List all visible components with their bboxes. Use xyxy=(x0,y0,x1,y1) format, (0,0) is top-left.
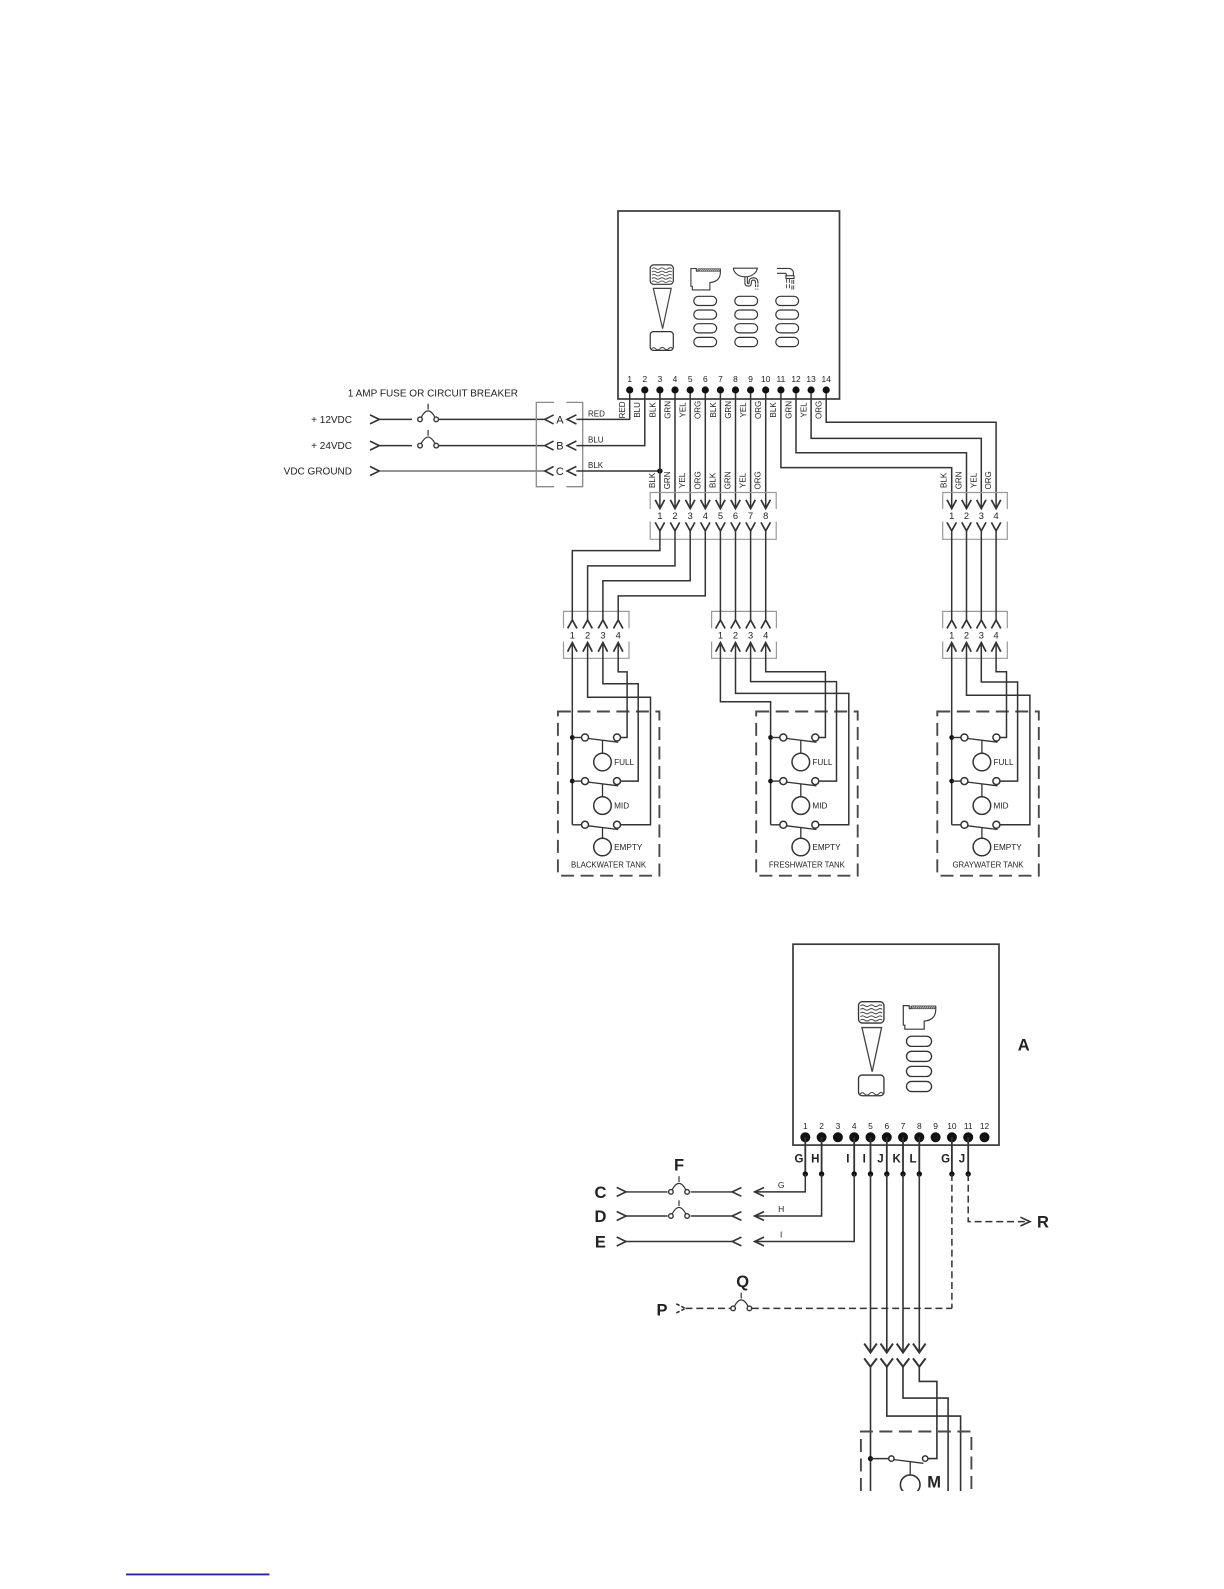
CN6 (graywater lower 4-pin) pin 4 fork/arrow xyxy=(991,620,1000,652)
svg-text:FULL: FULL xyxy=(614,758,634,767)
svg-text:D: D xyxy=(594,1208,606,1226)
net label K at bottom panel pin 7 xyxy=(893,1153,902,1165)
pin 1 of top panel (RED) xyxy=(618,374,633,418)
wire net J down to inline connector xyxy=(886,1174,888,1353)
switch F on row C xyxy=(669,1176,690,1194)
svg-text:2: 2 xyxy=(964,511,969,521)
pin 2 of top panel (BLU) xyxy=(633,374,648,418)
wire 8-pin pin 2 to blackwater connector pin 2 xyxy=(588,531,675,620)
svg-text:GRN: GRN xyxy=(955,471,964,489)
connector CN2 (8-pin inline) housing xyxy=(650,493,776,540)
wire 8-pin pin 7 to freshwater connector pin 3 xyxy=(750,531,752,620)
svg-text:C: C xyxy=(556,466,564,478)
svg-text:3: 3 xyxy=(748,631,753,641)
blackwater tank EMPTY float switch xyxy=(572,821,620,829)
node +24VDC input xyxy=(311,441,379,452)
CN4 (freshwater 4-pin) pin 3 fork/arrow xyxy=(746,620,755,652)
svg-text:13: 13 xyxy=(806,374,816,384)
net label G at bottom panel pin 10 xyxy=(941,1153,950,1165)
freshwater tank EMPTY float switch xyxy=(771,821,819,829)
svg-text:10: 10 xyxy=(761,374,771,384)
wire panel pin 9 down to 8-pin connector pin 7 (YEL) xyxy=(739,394,751,509)
svg-text:Q: Q xyxy=(736,1273,749,1291)
bottom panel pin 4 xyxy=(849,1121,859,1143)
bottom panel pin 9 xyxy=(931,1121,941,1143)
svg-text:YEL: YEL xyxy=(678,472,687,488)
CN6 (graywater lower 4-pin) pin 2 fork/arrow xyxy=(962,620,971,652)
svg-text:8: 8 xyxy=(763,511,768,521)
svg-text:4: 4 xyxy=(994,631,999,641)
svg-text:H: H xyxy=(778,1204,784,1214)
wire panel pin 8 down to 8-pin connector pin 6 (GRN) xyxy=(724,394,736,509)
svg-text:3: 3 xyxy=(600,631,605,641)
CN3 (blackwater 4-pin) pin 4 fork/arrow xyxy=(614,620,623,652)
CN4 (freshwater 4-pin) pin 1 fork/arrow xyxy=(716,620,725,652)
net label I at bottom panel pin 5 xyxy=(863,1153,866,1165)
wire 8-pin pin 1 to blackwater connector pin 1 xyxy=(572,531,660,620)
label: BLACKWATER TANK xyxy=(571,860,647,869)
junction: ground splits to 8-pin connector xyxy=(657,468,662,473)
svg-text:5: 5 xyxy=(688,374,693,384)
svg-text:RED: RED xyxy=(618,401,627,418)
wire panel pin 11 to graywater connector pin 1 (BLK) xyxy=(781,394,952,509)
wire net K down right side of tank M xyxy=(903,1367,948,1491)
graywater tank MID sensor lamp xyxy=(973,784,1008,814)
svg-text:EMPTY: EMPTY xyxy=(994,843,1023,852)
svg-text:3: 3 xyxy=(979,511,984,521)
svg-text:BLACKWATER TANK: BLACKWATER TANK xyxy=(571,860,647,869)
svg-text:ORG: ORG xyxy=(754,401,763,419)
wire net K down to inline connector xyxy=(902,1174,904,1353)
svg-text:RED: RED xyxy=(588,409,605,418)
label M xyxy=(927,1473,941,1491)
wire +24VDC to breaker xyxy=(379,445,412,447)
graywater tank FULL sensor lamp xyxy=(973,740,1014,771)
svg-text:E: E xyxy=(595,1234,606,1252)
svg-text:ORG: ORG xyxy=(984,471,993,489)
label: GRAYWATER TANK xyxy=(952,860,1024,869)
inline connector arrow/fork (K) xyxy=(897,1344,910,1367)
wire net J to output R (dashed) xyxy=(968,1174,1030,1226)
tank M dashed enclosure (cut off at page bottom) xyxy=(861,1432,972,1492)
svg-text:12: 12 xyxy=(980,1121,990,1131)
svg-text:VDC GROUND: VDC GROUND xyxy=(284,466,352,477)
wire panel pin 3 down to 8-pin connector pin 1 (BLK) xyxy=(648,394,660,509)
CN3 (blackwater 4-pin) pin 3 fork/arrow xyxy=(598,620,607,652)
blackwater tank FULL sensor lamp xyxy=(594,740,635,771)
wire blackwater tank FULL sense (pin4) xyxy=(618,643,627,738)
svg-text:1: 1 xyxy=(718,631,723,641)
svg-text:4: 4 xyxy=(763,631,768,641)
wire freshwater tank FULL sense (pin4) xyxy=(766,643,826,738)
net label J at bottom panel pin 6 xyxy=(877,1153,883,1165)
svg-text:YEL: YEL xyxy=(739,472,748,488)
svg-text:A: A xyxy=(556,414,564,426)
wire graywater tank MID sense (pin3) xyxy=(981,643,1017,782)
connector CN3 (blackwater 4-pin) housing xyxy=(564,611,630,658)
panel A: tank monitor (bottom) xyxy=(793,944,999,1145)
wire stub and junction below pin 11 xyxy=(966,1137,971,1176)
wire +12VDC to breaker xyxy=(379,418,412,420)
svg-text:I: I xyxy=(780,1230,782,1240)
connector CN5 (graywater upper 4-pin) housing xyxy=(943,493,1008,540)
wire net L down to inline connector xyxy=(918,1174,920,1353)
icon: tank level symbol xyxy=(650,265,673,351)
svg-text:GRN: GRN xyxy=(724,471,733,489)
wire graywater tank FULL sense (pin4) xyxy=(996,643,1006,738)
svg-text:YEL: YEL xyxy=(679,402,688,418)
svg-text:7: 7 xyxy=(718,374,723,384)
blackwater tank FULL float switch xyxy=(570,734,621,742)
svg-text:1: 1 xyxy=(570,631,575,641)
svg-text:10: 10 xyxy=(947,1121,957,1131)
CN5 (graywater upper 4-pin) pin 1 arrow/fork xyxy=(947,500,956,531)
graywater tank FULL float switch xyxy=(949,734,1000,742)
svg-text:P: P xyxy=(656,1301,667,1319)
svg-text:BLK: BLK xyxy=(940,472,949,488)
svg-text:L: L xyxy=(909,1153,916,1165)
svg-text:I: I xyxy=(846,1153,849,1165)
svg-text:YEL: YEL xyxy=(969,472,978,488)
svg-text:1: 1 xyxy=(949,511,954,521)
freshwater tank MID float switch xyxy=(768,778,819,786)
svg-text:14: 14 xyxy=(822,374,832,384)
svg-text:8: 8 xyxy=(733,374,738,384)
wire net I from pin 4 to switch row xyxy=(755,1174,855,1246)
net label L at bottom panel pin 8 xyxy=(909,1153,916,1165)
wire blackwater tank EMPTY sense (pin2) xyxy=(588,643,651,825)
CN2 (8-pin inline) pin 7 arrow/fork xyxy=(746,500,755,531)
net label H at bottom panel pin 2 xyxy=(811,1153,819,1165)
icon: sink (freshwater) with level bars xyxy=(733,268,758,346)
wire net G from pin 1 to switch row xyxy=(755,1174,806,1196)
svg-text:GRN: GRN xyxy=(663,401,672,419)
svg-text:ORG: ORG xyxy=(693,471,702,489)
bottom panel pin 6 xyxy=(882,1121,892,1143)
pin 7 of top panel (BLK) xyxy=(709,374,724,418)
svg-text:GRAYWATER TANK: GRAYWATER TANK xyxy=(952,860,1024,869)
pin 4 of top panel (GRN) xyxy=(663,374,678,419)
svg-text:BLK: BLK xyxy=(709,402,718,418)
wire blackwater tank MID sense (pin3) xyxy=(603,643,638,782)
blackwater tank EMPTY sensor lamp xyxy=(594,828,643,856)
pin 11 of top panel (BLK) xyxy=(769,374,785,418)
wire stub and junction below pin 7 xyxy=(900,1137,905,1176)
pin 12 of top panel (GRN) xyxy=(784,374,801,419)
svg-text:MID: MID xyxy=(994,802,1009,811)
svg-text:EMPTY: EMPTY xyxy=(812,843,841,852)
label R xyxy=(1037,1214,1049,1232)
svg-text:12: 12 xyxy=(791,374,801,384)
freshwater tank MID sensor lamp xyxy=(792,784,827,814)
CN3 (blackwater 4-pin) pin 2 fork/arrow xyxy=(583,620,592,652)
svg-text:F: F xyxy=(674,1156,684,1174)
svg-text:EMPTY: EMPTY xyxy=(614,843,643,852)
wire RED from panel pin to A xyxy=(576,394,629,420)
wire graywater upper pin 2 to lower pin 2 xyxy=(966,531,968,620)
bottom panel pin 10 xyxy=(947,1121,957,1143)
svg-text:K: K xyxy=(893,1153,902,1165)
svg-text:+ 24VDC: + 24VDC xyxy=(311,441,352,452)
wire freshwater tank common bus (pin1) xyxy=(720,643,770,825)
freshwater tank FULL sensor lamp xyxy=(792,740,833,771)
CN4 (freshwater 4-pin) pin 2 fork/arrow xyxy=(731,620,740,652)
connector CN4 (freshwater 4-pin) housing xyxy=(712,611,777,658)
bottom panel pin 3 xyxy=(833,1121,843,1143)
pin 10 of top panel (ORG) xyxy=(754,374,771,419)
connector pin C xyxy=(545,466,577,478)
svg-text:3: 3 xyxy=(836,1121,841,1131)
wire panel pin 14 to graywater connector pin 4 (ORG) xyxy=(826,394,996,509)
fuse/breaker F2 (24V) xyxy=(418,430,439,448)
wire breaker to connector A xyxy=(439,418,545,420)
wire 8-pin pin 3 to blackwater connector pin 3 xyxy=(603,531,690,620)
pin 6 of top panel (ORG) xyxy=(694,374,709,419)
CN2 (8-pin inline) pin 5 arrow/fork xyxy=(716,500,725,531)
bottom panel pin 1 xyxy=(800,1121,810,1143)
pin 5 of top panel (YEL) xyxy=(679,374,694,418)
bottom panel pin 7 xyxy=(898,1121,908,1143)
pin 9 of top panel (YEL) xyxy=(739,374,754,418)
svg-text:9: 9 xyxy=(933,1121,938,1131)
panel: tank monitor display (top) xyxy=(618,211,840,399)
svg-text:GRN: GRN xyxy=(663,471,672,489)
input C xyxy=(594,1184,626,1202)
svg-text:11: 11 xyxy=(964,1121,973,1131)
wire panel pin 13 to graywater connector pin 3 (YEL) xyxy=(811,394,981,509)
svg-text:+ 12VDC: + 12VDC xyxy=(311,415,352,426)
CN6 (graywater lower 4-pin) pin 3 fork/arrow xyxy=(977,620,986,652)
wire panel pin 6 down to 8-pin connector pin 4 (ORG) xyxy=(693,394,705,509)
svg-text:6: 6 xyxy=(884,1121,889,1131)
input P (dashed) xyxy=(656,1301,685,1319)
wire stub and junction below pin 2 xyxy=(819,1137,824,1176)
svg-text:8: 8 xyxy=(917,1121,922,1131)
svg-text:1: 1 xyxy=(657,511,662,521)
graywater tank MID float switch xyxy=(949,778,1000,786)
wire panel pin 12 to graywater connector pin 2 (GRN) xyxy=(796,394,967,509)
blackwater tank dashed enclosure xyxy=(558,712,660,876)
freshwater tank EMPTY sensor lamp xyxy=(792,828,841,856)
blackwater tank MID sensor lamp xyxy=(594,784,629,814)
svg-text:YEL: YEL xyxy=(739,402,748,418)
svg-text:ORG: ORG xyxy=(815,401,824,419)
freshwater tank dashed enclosure xyxy=(756,712,858,876)
wire stub and junction below pin 8 xyxy=(917,1137,922,1176)
CN2 (8-pin inline) pin 3 arrow/fork xyxy=(686,500,695,531)
icon: faucet (graywater) with level bars xyxy=(776,268,799,346)
CN6 (graywater lower 4-pin) pin 1 fork/arrow xyxy=(947,620,956,652)
wire stub and junction below pin 4 xyxy=(852,1137,857,1176)
wire graywater upper pin 1 to lower pin 1 xyxy=(951,531,953,620)
pin 13 of top panel (YEL) xyxy=(800,374,817,418)
svg-text:BLU: BLU xyxy=(588,436,604,445)
wire BLU from panel pin to B xyxy=(576,394,644,446)
svg-text:1: 1 xyxy=(803,1121,808,1131)
svg-text:2: 2 xyxy=(819,1121,824,1131)
svg-text:7: 7 xyxy=(748,511,753,521)
wire blackwater tank common bus (pin1) xyxy=(571,643,573,825)
inline connector arrow/fork (I) xyxy=(864,1344,877,1367)
svg-text:6: 6 xyxy=(703,374,708,384)
svg-text:1: 1 xyxy=(627,374,632,384)
svg-text:GRN: GRN xyxy=(724,401,733,419)
svg-text:GRN: GRN xyxy=(784,401,793,419)
svg-text:BLK: BLK xyxy=(708,472,717,488)
pin 3 of top panel (BLK) xyxy=(648,374,663,418)
switch Q xyxy=(731,1293,752,1311)
net label G at bottom panel pin 1 xyxy=(795,1153,804,1165)
graywater tank EMPTY float switch xyxy=(952,821,1000,829)
CN5 (graywater upper 4-pin) pin 3 arrow/fork xyxy=(977,500,986,531)
svg-text:4: 4 xyxy=(673,374,678,384)
svg-text:G: G xyxy=(795,1153,804,1165)
inline connector arrow/fork (L) xyxy=(913,1344,926,1367)
label: 1 AMP FUSE OR CIRCUIT BREAKER xyxy=(348,388,518,399)
svg-text:BLK: BLK xyxy=(769,402,778,418)
wire switch to open fork (D) xyxy=(691,1212,742,1221)
icon: toilet with level bars (bottom panel) xyxy=(903,1006,936,1092)
svg-text:FULL: FULL xyxy=(994,758,1014,767)
pin 8 of top panel (GRN) xyxy=(724,374,739,419)
CN2 (8-pin inline) pin 6 arrow/fork xyxy=(731,500,740,531)
svg-text:9: 9 xyxy=(748,374,753,384)
svg-text:ORG: ORG xyxy=(694,401,703,419)
svg-text:R: R xyxy=(1037,1214,1049,1232)
wire panel pin 7 down to 8-pin connector pin 5 (BLK) xyxy=(708,394,720,509)
bottom panel pin 8 xyxy=(914,1121,924,1143)
wire stub and junction below pin 5 xyxy=(868,1137,873,1176)
svg-text:YEL: YEL xyxy=(800,402,809,418)
CN2 (8-pin inline) pin 4 arrow/fork xyxy=(701,500,710,531)
label F (switch designator) xyxy=(674,1156,684,1174)
tank M sensor lamp xyxy=(900,1462,920,1495)
wire net I down to inline connector xyxy=(870,1174,872,1353)
svg-text:BLU: BLU xyxy=(633,402,642,418)
svg-text:BLK: BLK xyxy=(588,461,604,470)
svg-text:FRESHWATER TANK: FRESHWATER TANK xyxy=(769,860,846,869)
wire C to switch xyxy=(626,1191,668,1193)
CN5 (graywater upper 4-pin) pin 4 arrow/fork xyxy=(991,500,1000,531)
wire ground to connector C xyxy=(379,470,545,472)
svg-text:BLK: BLK xyxy=(648,472,657,488)
connector J1 (power A/B/C) bracket xyxy=(536,402,582,486)
wire stub and junction below pin 6 xyxy=(884,1137,889,1176)
connector pin A xyxy=(545,414,577,426)
switch F on row D xyxy=(669,1200,690,1218)
svg-text:6: 6 xyxy=(733,511,738,521)
wire net L to tank M FULL switch xyxy=(919,1367,937,1459)
wire 8-pin pin 4 to blackwater connector pin 4 xyxy=(618,531,705,620)
svg-text:C: C xyxy=(594,1184,606,1202)
freshwater tank FULL float switch xyxy=(768,734,819,742)
svg-text:4: 4 xyxy=(994,511,999,521)
CN4 (freshwater 4-pin) pin 4 fork/arrow xyxy=(761,620,770,652)
label: FRESHWATER TANK xyxy=(769,860,846,869)
svg-text:3: 3 xyxy=(979,631,984,641)
CN2 (8-pin inline) pin 2 arrow/fork xyxy=(670,500,679,531)
svg-text:1 AMP FUSE OR CIRCUIT BREAKER: 1 AMP FUSE OR CIRCUIT BREAKER xyxy=(348,388,518,399)
tank M FULL float switch xyxy=(868,1456,928,1463)
svg-text:FULL: FULL xyxy=(812,758,832,767)
CN2 (8-pin inline) pin 8 arrow/fork xyxy=(761,500,770,531)
wire freshwater tank EMPTY sense (pin2) xyxy=(736,643,849,825)
wire D to switch xyxy=(626,1215,668,1217)
wire graywater upper pin 3 to lower pin 3 xyxy=(980,531,982,620)
connector CN6 (graywater lower 4-pin) housing xyxy=(943,611,1008,658)
icon: tank level symbol (bottom panel) xyxy=(859,1002,884,1096)
wire net J down right side of tank M xyxy=(887,1367,961,1491)
svg-text:M: M xyxy=(927,1473,941,1491)
svg-text:3: 3 xyxy=(688,511,693,521)
net label I at bottom panel pin 4 xyxy=(846,1153,849,1165)
CN3 (blackwater 4-pin) pin 1 fork/arrow xyxy=(568,620,577,652)
svg-text:MID: MID xyxy=(614,802,629,811)
svg-text:I: I xyxy=(863,1153,866,1165)
wire switch Q to net G pin10 (dashed) xyxy=(752,1174,952,1308)
wire freshwater tank MID sense (pin3) xyxy=(751,643,837,782)
node +12VDC input xyxy=(311,415,379,426)
wire panel pin 10 down to 8-pin connector pin 8 (ORG) xyxy=(754,394,766,509)
wire switch to open fork (C) xyxy=(691,1188,742,1197)
icon: toilet (blackwater) with level bars xyxy=(691,269,721,347)
svg-text:J: J xyxy=(959,1153,965,1165)
svg-text:BLK: BLK xyxy=(648,402,657,418)
wire graywater tank EMPTY sense (pin2) xyxy=(967,643,1030,825)
wire stub and junction below pin 10 xyxy=(949,1137,954,1176)
wire panel pin 4 down to 8-pin connector pin 2 (GRN) xyxy=(663,394,675,509)
CN2 (8-pin inline) pin 1 arrow/fork xyxy=(655,500,664,531)
fuse/breaker F1 (12V) xyxy=(418,404,439,422)
svg-text:2: 2 xyxy=(585,631,590,641)
CN5 (graywater upper 4-pin) pin 2 arrow/fork xyxy=(962,500,971,531)
svg-text:A: A xyxy=(1018,1036,1030,1054)
pin 14 of top panel (ORG) xyxy=(815,374,832,419)
wire panel pin 5 down to 8-pin connector pin 3 (YEL) xyxy=(678,394,690,509)
wire BLK from panel pin to C xyxy=(576,394,660,471)
graywater tank EMPTY sensor lamp xyxy=(973,828,1022,856)
bottom panel pin 2 xyxy=(817,1121,827,1143)
svg-text:G: G xyxy=(778,1180,785,1190)
input D xyxy=(594,1208,626,1226)
footer rule (navy) xyxy=(126,1573,269,1575)
svg-text:J: J xyxy=(877,1153,883,1165)
wire 8-pin pin 5 to freshwater connector pin 1 xyxy=(719,531,721,620)
wire net H from pin 2 to switch row xyxy=(755,1174,822,1220)
svg-text:MID: MID xyxy=(812,802,827,811)
bottom panel pin 5 xyxy=(866,1121,876,1143)
bottom panel pin 11 xyxy=(963,1121,973,1143)
svg-text:G: G xyxy=(941,1153,950,1165)
svg-text:4: 4 xyxy=(616,631,621,641)
input E xyxy=(595,1234,626,1252)
svg-text:ORG: ORG xyxy=(754,471,763,489)
wire graywater upper pin 4 to lower pin 4 xyxy=(995,531,997,620)
bottom panel pin 12 xyxy=(980,1121,990,1143)
blackwater tank MID float switch xyxy=(570,778,621,786)
svg-text:5: 5 xyxy=(868,1121,873,1131)
svg-text:H: H xyxy=(811,1153,819,1165)
label A (panel designator) xyxy=(1018,1036,1030,1054)
wire P to switch Q (dashed) xyxy=(686,1307,731,1309)
label Q xyxy=(736,1273,749,1291)
wire net I common bus into tank M xyxy=(870,1367,872,1491)
svg-text:4: 4 xyxy=(703,511,708,521)
svg-text:11: 11 xyxy=(777,374,786,384)
svg-text:B: B xyxy=(556,441,563,453)
wire graywater tank common bus (pin1) xyxy=(951,643,953,825)
svg-text:3: 3 xyxy=(658,374,663,384)
